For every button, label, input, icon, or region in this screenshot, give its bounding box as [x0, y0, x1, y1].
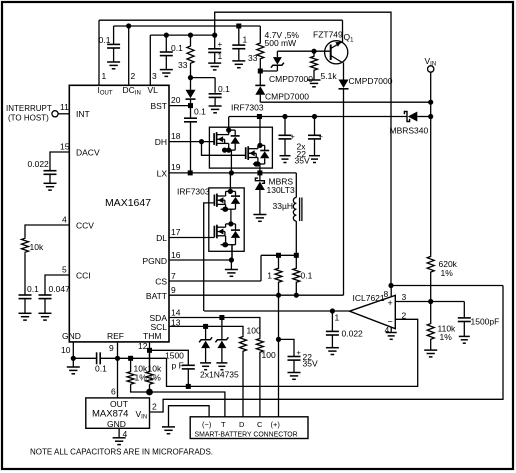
- svg-text:17: 17: [171, 227, 181, 237]
- label IRF7303 lower: [177, 187, 210, 197]
- zener 4.7V CMPD7000: [269, 51, 313, 84]
- svg-text:+: +: [388, 298, 393, 308]
- ground DACV cap: [44, 183, 57, 190]
- pin 3 VL label: [148, 71, 159, 95]
- capacitor 1500pF THM: [165, 351, 195, 387]
- svg-text:1: 1: [267, 271, 272, 281]
- svg-text:9: 9: [171, 285, 176, 295]
- svg-text:1%: 1%: [441, 268, 454, 278]
- svg-text:3: 3: [152, 71, 157, 81]
- diode CMPD7000 from VIN: [255, 71, 309, 102]
- label 2x 22 35V: [295, 142, 310, 166]
- ground SDA zener: [216, 363, 227, 370]
- wire DCIN rail: [114, 25, 261, 27]
- wire pin2 DCIN up: [128, 26, 130, 85]
- diode MBRS130LT3: [255, 173, 295, 215]
- pin 4 CCV label: [62, 215, 94, 231]
- wire LX: [169, 172, 296, 174]
- pin 11 INT label: [60, 102, 90, 119]
- capacitor 0.022 DACV: [28, 159, 57, 183]
- node rail corner: [257, 114, 262, 119]
- svg-text:1: 1: [243, 35, 248, 45]
- transistor Q1 FZT749: [313, 20, 354, 64]
- node 22uF branch: [276, 337, 281, 342]
- capacitor 0.047 CCI: [39, 284, 71, 313]
- resistor 33 BST: [178, 33, 194, 78]
- svg-text:CCV: CCV: [76, 221, 94, 231]
- svg-text:1500: 1500: [165, 351, 184, 361]
- capacitor 0.1 CCV: [19, 284, 40, 313]
- svg-text:33: 33: [248, 53, 258, 63]
- terminal VIN: [425, 56, 437, 72]
- svg-text:D: D: [239, 420, 245, 429]
- pin 14 SDA label: [150, 308, 181, 324]
- wire CS pin: [169, 280, 261, 282]
- node VIN-MBRS dot: [428, 114, 433, 119]
- svg-text:1: 1: [218, 51, 223, 61]
- wire REF to minus input: [167, 319, 418, 386]
- svg-text:3: 3: [402, 292, 407, 302]
- ground cap B: [309, 156, 320, 163]
- svg-text:+: +: [218, 40, 223, 49]
- zener SCL 1N4735: [199, 324, 212, 363]
- ground cap A: [280, 156, 291, 163]
- wire BST pin: [169, 103, 193, 108]
- pin 7 CS label: [155, 271, 176, 287]
- svg-text:GND: GND: [62, 331, 81, 341]
- node 1500pF bottom: [186, 384, 191, 389]
- wire pin3 VL up: [149, 35, 151, 85]
- ground 110k: [424, 343, 437, 357]
- pin 1 IOUT label: [98, 71, 113, 97]
- svg-text:0.1: 0.1: [99, 35, 111, 45]
- svg-text:5.1k: 5.1k: [321, 71, 338, 81]
- svg-text:BATT: BATT: [146, 291, 167, 301]
- ground 5.1k: [308, 80, 321, 87]
- wire CS link: [260, 255, 262, 281]
- svg-text:p F: p F: [172, 361, 184, 371]
- pin 17 DL label: [156, 227, 181, 243]
- wire zener link: [260, 70, 277, 72]
- svg-text:0.1: 0.1: [218, 84, 230, 94]
- svg-text:1500pF: 1500pF: [471, 317, 500, 327]
- svg-text:+: +: [291, 132, 296, 141]
- pin 12 THM label: [138, 331, 161, 351]
- svg-text:9: 9: [109, 343, 114, 353]
- node REF dot: [115, 356, 120, 361]
- svg-text:CS: CS: [155, 277, 167, 287]
- svg-text:35V: 35V: [303, 359, 318, 369]
- mosfet M2 upper: [246, 117, 270, 173]
- inductor 33uH: [273, 173, 302, 255]
- svg-text:IRF7303: IRF7303: [177, 187, 210, 197]
- wire CCI pin: [45, 275, 69, 295]
- capacitor 1500pF comp: [458, 302, 500, 337]
- capacitor 22 35V: [279, 339, 318, 372]
- svg-text:0.047: 0.047: [49, 284, 71, 294]
- wire VIN to DCIN diode: [260, 101, 430, 103]
- svg-text:4: 4: [62, 215, 67, 225]
- node GND dot: [71, 356, 76, 361]
- svg-text:PGND: PGND: [142, 256, 167, 266]
- svg-text:6: 6: [111, 387, 116, 397]
- svg-text:18: 18: [171, 131, 181, 141]
- capacitor 22uF B: [308, 114, 324, 156]
- wire connector minus: [169, 406, 210, 427]
- svg-text:CMPD7000: CMPD7000: [269, 74, 313, 84]
- node N1-N2 link: [230, 209, 232, 211]
- wire BATT to plus: [278, 295, 280, 417]
- wire PGND pin: [169, 259, 231, 261]
- node 10k left top: [128, 356, 133, 361]
- svg-text:35V: 35V: [295, 156, 310, 166]
- note text: [30, 448, 213, 457]
- capacitor 1 electrolytic VL: [208, 33, 222, 64]
- pin 19 LX label: [157, 162, 181, 179]
- svg-text:(TO HOST): (TO HOST): [8, 114, 49, 123]
- mosfet M1 upper: [214, 117, 240, 173]
- node plus input dot: [428, 299, 433, 304]
- pin 2 label: [152, 402, 157, 412]
- svg-text:33: 33: [178, 60, 188, 70]
- svg-text:INT: INT: [76, 109, 90, 119]
- ground 1uF DCIN cap: [232, 61, 245, 68]
- node THM dot: [147, 348, 152, 353]
- ground CCV cap: [19, 313, 32, 320]
- label IRF7303 upper: [231, 103, 264, 113]
- svg-text:10k: 10k: [30, 242, 44, 252]
- svg-text:BST: BST: [150, 101, 167, 111]
- wire REF pin: [117, 342, 119, 398]
- wire INT pin: [58, 113, 69, 115]
- wire to VL bypass cap: [191, 77, 216, 79]
- wire BATT pin: [169, 294, 344, 296]
- svg-text:2: 2: [402, 311, 407, 321]
- resistor 10k left: [127, 358, 148, 384]
- pin 5 CCI label: [62, 265, 91, 281]
- wire DACV pin: [50, 152, 69, 171]
- pin 20 BST label: [150, 95, 180, 111]
- svg-text:MAX874: MAX874: [92, 409, 128, 420]
- node LX M1: [229, 170, 234, 175]
- resistor 100 SCL: [240, 326, 261, 417]
- box smart battery connector: [190, 417, 308, 439]
- ground connector minus: [162, 427, 175, 434]
- svg-text:33µH: 33µH: [273, 201, 294, 211]
- svg-text:100: 100: [247, 326, 261, 336]
- svg-text:2x1N4735: 2x1N4735: [200, 370, 239, 380]
- svg-text:DH: DH: [155, 137, 167, 147]
- terminal INTERRUPT: [6, 104, 58, 123]
- node ICL supply dot: [388, 283, 393, 288]
- pin 10 GND label: [61, 331, 81, 355]
- node 5.1k junction: [311, 49, 316, 54]
- resistor 33 DCIN: [248, 26, 264, 71]
- node BATT 0.1ohm: [294, 293, 299, 298]
- svg-text:FZT749: FZT749: [313, 30, 343, 40]
- diode CMPD7000 Q1 collector: [339, 63, 393, 296]
- ground PGND: [225, 260, 238, 276]
- box IRF7303 upper: [209, 127, 272, 168]
- pin 6 label: [111, 387, 116, 397]
- svg-text:DL: DL: [156, 233, 167, 243]
- svg-text:10: 10: [61, 345, 71, 355]
- svg-text:CMPD7000: CMPD7000: [265, 92, 309, 102]
- svg-text:1%: 1%: [440, 332, 453, 342]
- wire CCV pin: [25, 225, 69, 237]
- ground GND pin: [67, 358, 80, 374]
- ground MAX874: [113, 438, 126, 445]
- svg-text:MBRS340: MBRS340: [390, 126, 429, 136]
- pin 18 DH label: [155, 131, 181, 147]
- svg-text:2: 2: [152, 402, 157, 412]
- node BATT 1ohm: [276, 293, 281, 298]
- wire MAX874 GND: [118, 428, 120, 438]
- wire DH to M2 gate: [202, 142, 246, 156]
- resistor 5.1k: [311, 51, 338, 81]
- svg-text:VL: VL: [148, 85, 159, 95]
- svg-text:11: 11: [60, 102, 69, 112]
- capacitor 0.1 BST-LX: [184, 106, 206, 173]
- svg-text:1: 1: [102, 71, 107, 81]
- wire SDA: [169, 318, 260, 338]
- label 4.7V 5% 500mW: [265, 30, 300, 48]
- mosfet N1 lower: [214, 173, 240, 212]
- svg-text:INTERRUPT: INTERRUPT: [6, 104, 52, 113]
- svg-text:1%: 1%: [149, 373, 162, 383]
- resistor 10k right: [146, 350, 162, 384]
- wire VL rail: [150, 34, 214, 36]
- zener SDA 1N4735: [215, 315, 228, 363]
- ground 1uF cap: [208, 63, 221, 70]
- wire THM pin: [149, 342, 151, 372]
- svg-text:DACV: DACV: [76, 148, 100, 158]
- capacitor 22uF A: [279, 114, 296, 156]
- ground 22uF: [288, 373, 301, 380]
- svg-text:CCI: CCI: [76, 271, 91, 281]
- wire divider: [131, 384, 225, 417]
- wire ICL supply rail: [391, 285, 503, 287]
- node DCIN dot: [126, 23, 131, 28]
- node divider dot: [146, 384, 153, 395]
- IC U2 MAX874 body: [86, 398, 150, 429]
- ground CCI cap: [39, 313, 52, 320]
- wire DH pin: [169, 141, 214, 143]
- wire 10k to cap: [24, 253, 26, 295]
- svg-text:0.1: 0.1: [171, 43, 183, 53]
- svg-text:0.1: 0.1: [95, 364, 107, 374]
- svg-text:16: 16: [171, 250, 181, 260]
- svg-text:12: 12: [138, 341, 148, 351]
- mosfet N2 lower: [214, 210, 240, 260]
- pin 16 PGND label: [142, 250, 180, 266]
- svg-text:GND: GND: [107, 419, 126, 429]
- node 33-zener junction: [258, 69, 263, 74]
- ground 1500pF comp: [459, 336, 470, 343]
- pin 9 BATT label: [146, 285, 176, 301]
- capacitor 1 DCIN: [232, 24, 247, 61]
- wire Q1 base: [277, 50, 330, 52]
- ground SCL zener: [200, 363, 211, 370]
- wire ICL pin4 ground: [386, 327, 397, 339]
- svg-text:THM: THM: [143, 331, 161, 341]
- svg-text:0.022: 0.022: [28, 159, 50, 169]
- svg-text:14: 14: [171, 308, 181, 318]
- svg-text:0.1: 0.1: [301, 271, 313, 281]
- svg-text:1: 1: [335, 313, 340, 323]
- svg-text:+: +: [297, 348, 302, 357]
- pin 2 DCIN label: [123, 71, 141, 97]
- wire SCL: [169, 326, 243, 335]
- wire ICL plus input: [395, 301, 464, 303]
- pin 4 label: [123, 429, 128, 439]
- op-amp U3 ICL7621: [350, 289, 407, 335]
- svg-text:(−): (−): [202, 420, 212, 429]
- svg-text:0.1: 0.1: [194, 107, 206, 117]
- svg-text:0.022: 0.022: [342, 329, 364, 339]
- wire A IOUT to Q1 emitter: [99, 19, 343, 21]
- capacitor 0.1 DCIN: [99, 26, 120, 62]
- resistor 620k: [427, 256, 457, 302]
- svg-text:0.1: 0.1: [27, 284, 39, 294]
- node 33-diode junction: [188, 75, 193, 80]
- wire VIN down: [430, 72, 432, 256]
- ground VL cap: [160, 70, 173, 77]
- ground 0.022 comp: [326, 348, 339, 355]
- node PGND dot: [229, 245, 234, 263]
- ground VL bypass: [209, 106, 222, 113]
- diode BST boost: [186, 78, 196, 106]
- wire ICL pin8: [390, 286, 392, 297]
- node VIN-DCIN dot: [428, 100, 433, 105]
- label 2x1N4735: [200, 370, 239, 380]
- svg-text:19: 19: [171, 162, 181, 172]
- pin 13 SCL label: [150, 317, 180, 332]
- wire pin1 IOUT up: [98, 20, 100, 85]
- pin 9 REF label: [107, 331, 124, 353]
- ground MBRS130LT3: [253, 215, 266, 222]
- wire THM to 1500pF: [150, 350, 189, 365]
- wire REF rail: [100, 357, 166, 359]
- svg-text:20: 20: [171, 95, 181, 105]
- wire input rail: [229, 116, 407, 118]
- svg-text:2: 2: [131, 71, 136, 81]
- svg-text:15: 15: [60, 142, 70, 152]
- capacitor 0.1 VL bypass: [209, 78, 230, 106]
- svg-text:100: 100: [262, 350, 276, 360]
- node LX BST cap: [188, 170, 193, 175]
- svg-text:7: 7: [171, 271, 176, 281]
- svg-text:REF: REF: [107, 331, 124, 341]
- wire GND to cap: [73, 357, 96, 359]
- wire MAX874 VIN: [150, 286, 504, 413]
- resistor 0.1 sense: [293, 253, 313, 295]
- svg-text:4: 4: [385, 325, 390, 335]
- svg-text:500 mW: 500 mW: [265, 38, 297, 48]
- svg-text:SMART-BATTERY CONNECTOR: SMART-BATTERY CONNECTOR: [195, 431, 298, 438]
- resistor 10k CCV: [22, 237, 44, 253]
- svg-text:(+): (+): [271, 420, 281, 429]
- wire sense node: [261, 254, 296, 256]
- IC U1 MAX1647 body: [69, 85, 169, 342]
- wire DL pin: [169, 237, 214, 239]
- capacitor 0.022 comp: [326, 311, 363, 348]
- svg-text:MAX1647: MAX1647: [105, 197, 151, 209]
- box IRF7303 lower: [209, 188, 244, 251]
- svg-text:5: 5: [62, 265, 67, 275]
- svg-text:130LT3: 130LT3: [267, 185, 295, 195]
- node LX M2: [257, 170, 262, 175]
- svg-text:T: T: [221, 420, 226, 429]
- svg-text:+: +: [319, 132, 324, 141]
- node DH dot: [199, 139, 204, 144]
- svg-text:CMPD7000: CMPD7000: [349, 76, 393, 86]
- wire GND pin: [72, 342, 74, 358]
- resistor 1 sense: [267, 253, 282, 295]
- wire ICL output: [204, 310, 349, 312]
- svg-text:OUT: OUT: [110, 399, 128, 409]
- resistor 100 SDA: [256, 337, 276, 417]
- svg-text:LX: LX: [157, 169, 168, 179]
- wire B VL to ICL7621 supply: [215, 12, 391, 285]
- svg-text:NOTE ALL CAPACITORS ARE IN MIC: NOTE ALL CAPACITORS ARE IN MICROFARADS.: [30, 448, 213, 457]
- svg-text:ICL7621: ICL7621: [353, 293, 385, 303]
- svg-text:−: −: [388, 317, 393, 327]
- svg-text:C: C: [257, 420, 263, 429]
- capacitor 0.1 REF: [95, 352, 107, 373]
- resistor 110k: [427, 302, 456, 344]
- capacitor 0.1 VL: [160, 33, 183, 70]
- ground DCIN cap: [107, 62, 120, 69]
- wire ICL out to N1 gate: [204, 203, 214, 311]
- svg-text:IRF7303: IRF7303: [231, 103, 264, 113]
- pin 15 DACV label: [60, 142, 100, 158]
- diode MBRS340: [390, 112, 431, 136]
- node 0.022 branch: [330, 308, 340, 322]
